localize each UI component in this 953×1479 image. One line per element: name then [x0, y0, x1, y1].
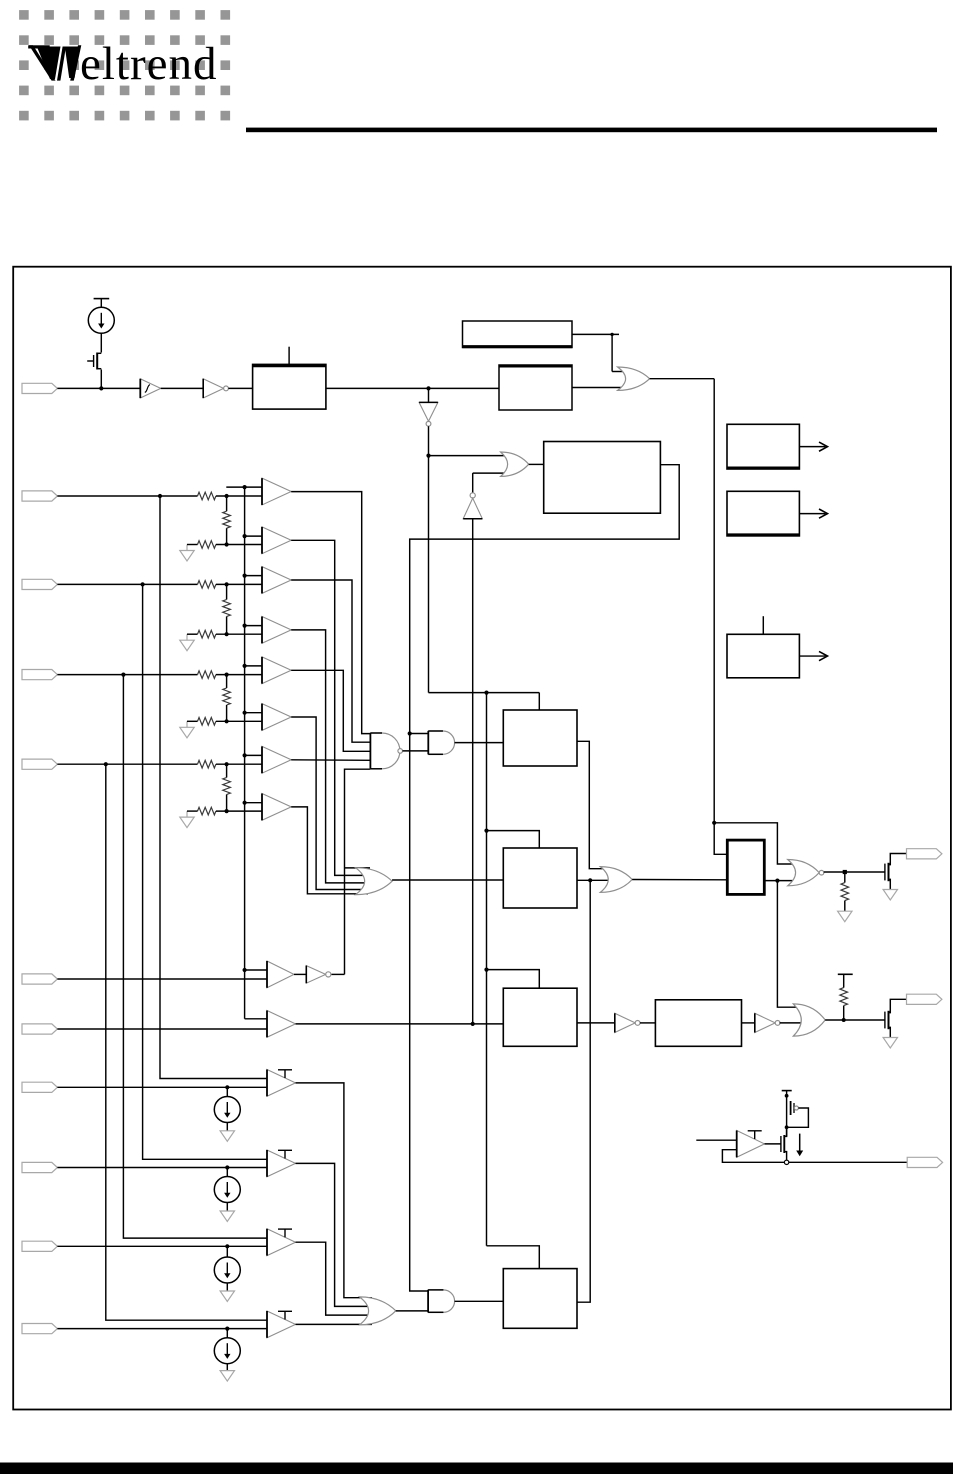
svg-text:eltrend: eltrend [80, 38, 218, 90]
